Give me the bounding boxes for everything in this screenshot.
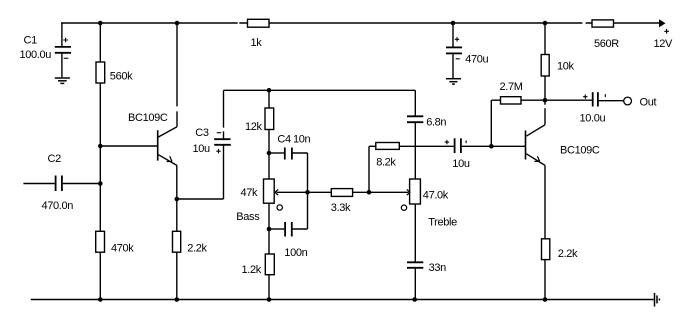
svg-text:12k: 12k	[245, 121, 263, 133]
svg-text:47k: 47k	[241, 187, 259, 199]
wire 6.8n bottom to treble pot	[414, 123, 416, 179]
svg-text:C3: C3	[195, 127, 209, 139]
node dot collector/10k junction	[543, 98, 548, 103]
wire 100n right up to wiper node	[293, 192, 308, 229]
node dot emitter junction	[175, 197, 180, 202]
svg-text:BC109C: BC109C	[128, 112, 168, 124]
transistor Q2 BC109C	[526, 125, 600, 166]
resistor R 1k	[248, 19, 270, 49]
wire 2.2k bottom	[544, 260, 546, 300]
node dot bottom 33n	[412, 297, 417, 302]
wire 2.2k Q1 bottom	[176, 252, 178, 299]
wire top rail left	[61, 22, 248, 24]
wire 10u right to Q2 base	[462, 145, 525, 147]
svg-text:3.3k: 3.3k	[331, 202, 351, 214]
wire junction up to 8.2k	[369, 146, 376, 192]
12V supply arrow	[654, 19, 674, 50]
svg-text:C4: C4	[277, 134, 291, 146]
node dot bottom 2.2k Q2	[543, 297, 548, 302]
wire to C4	[269, 152, 284, 154]
resistor R 470k	[96, 231, 135, 254]
wire 2.7M left stem	[491, 100, 500, 146]
svg-text:10u: 10u	[193, 143, 211, 155]
resistor R 3.3k	[331, 189, 353, 214]
svg-text:BC109C: BC109C	[560, 145, 600, 157]
node dot 3.3k/8.2k junction	[367, 190, 372, 195]
wire C4 right to wiper node	[293, 153, 308, 192]
svg-text:100.0u: 100.0u	[20, 49, 52, 61]
wire mid rail	[224, 89, 416, 91]
wire bottom rail	[31, 299, 654, 301]
capacitor C1 100.0u	[20, 23, 72, 77]
wire C3 bottom stem	[223, 145, 225, 199]
node dot 10k rail	[543, 21, 548, 26]
svg-text:Treble: Treble	[428, 217, 457, 229]
wire 2.7M right to collector node	[521, 99, 545, 101]
node dot 12k/C4/pot	[267, 151, 272, 156]
ground under 470u	[446, 79, 461, 84]
svg-text:12V: 12V	[654, 38, 674, 50]
svg-text:470u: 470u	[465, 54, 488, 66]
wire treble pot bottom	[414, 204, 416, 262]
ground under C1	[55, 78, 70, 83]
wire output from collector node	[545, 99, 592, 101]
wire 10k top stub	[544, 23, 546, 55]
node dot bottom 470k	[98, 297, 103, 302]
svg-text:33n: 33n	[429, 262, 447, 274]
wire 33n bottom	[414, 269, 416, 300]
wire Q1 emitter down	[176, 166, 178, 232]
svg-text:2.2k: 2.2k	[187, 242, 207, 254]
wire 1.2k bottom	[268, 275, 270, 300]
node dot 470u rail	[451, 21, 456, 26]
capacitor 100n	[284, 222, 307, 259]
svg-text:C1: C1	[24, 35, 38, 47]
node dot top rail / 560k	[98, 21, 103, 26]
svg-text:8.2k: 8.2k	[376, 157, 396, 169]
capacitor 33n	[407, 262, 446, 274]
svg-text:6.8n: 6.8n	[426, 117, 446, 129]
svg-text:10n: 10n	[293, 134, 311, 146]
svg-text:1k: 1k	[251, 37, 263, 49]
node dot 100n junction	[267, 227, 272, 232]
resistor R 12k	[245, 108, 274, 133]
svg-text:47.0k: 47.0k	[423, 190, 449, 202]
wire pot bottom	[268, 203, 270, 229]
capacitor 470u	[446, 23, 489, 78]
potentiometer VR Bass 47k	[236, 153, 307, 223]
wire input left	[23, 183, 54, 185]
node dot bottom 1.2k	[267, 297, 272, 302]
svg-text:10k: 10k	[557, 61, 575, 73]
resistor R 1.2k	[242, 254, 275, 276]
svg-text:470k: 470k	[111, 242, 134, 254]
wire 560k top stub	[99, 23, 101, 62]
node dot bass wiper	[305, 190, 310, 195]
node dot collector rail	[175, 21, 180, 26]
wire 470k bottom	[99, 252, 101, 299]
svg-text:1.2k: 1.2k	[242, 264, 262, 276]
svg-text:C2: C2	[48, 153, 62, 165]
wire top rail mid	[269, 22, 592, 24]
svg-text:100n: 100n	[284, 247, 307, 259]
resistor R 10k	[541, 55, 574, 77]
wire Q2 emitter down	[544, 165, 546, 238]
wire emitter to C3	[177, 198, 224, 200]
wire 3.3k right to junction	[353, 191, 369, 193]
svg-text:10.0u: 10.0u	[580, 113, 606, 125]
svg-text:Bass: Bass	[236, 211, 260, 223]
resistor R 8.2k	[376, 143, 400, 169]
capacitor C3 10u	[193, 127, 231, 155]
node dot C2 junction	[98, 181, 103, 186]
wire 12k top stub	[268, 90, 270, 108]
resistor R 2.7M	[500, 81, 523, 104]
capacitor 10u coupling	[445, 138, 470, 170]
capacitor 6.8n	[407, 116, 446, 128]
wire junction to treble wiper arrow	[369, 190, 410, 196]
out terminal circle	[624, 97, 657, 109]
svg-text:560R: 560R	[594, 38, 619, 50]
wire C3 top stem	[223, 90, 225, 138]
node dot mid rail 12k	[267, 88, 272, 93]
svg-text:Out: Out	[640, 97, 657, 109]
svg-text:2.2k: 2.2k	[558, 248, 578, 260]
resistor R 2.2k (Q1 emitter)	[173, 231, 208, 254]
wire 10k bottom	[544, 76, 546, 100]
transistor Q1 BC109C	[128, 112, 177, 166]
svg-text:2.7M: 2.7M	[500, 81, 523, 93]
svg-text:560k: 560k	[110, 71, 133, 83]
wire 1.2k top	[268, 229, 270, 254]
resistor R 560R	[592, 20, 619, 50]
potentiometer VR Treble 47.0k	[401, 179, 457, 229]
capacitor C4 10n	[277, 134, 310, 160]
wire wiper node to 3.3k	[308, 191, 332, 193]
capacitor 10.0u output	[580, 92, 606, 124]
node dot bottom 2.2k Q1	[175, 297, 180, 302]
wire base	[100, 145, 157, 147]
node dot base junction	[98, 144, 103, 149]
svg-text:10u: 10u	[452, 158, 470, 170]
wire Q2 collector up	[544, 100, 546, 125]
wire Q1 collector up	[176, 23, 178, 127]
node dot 2.7M base junction	[489, 144, 494, 149]
wire 12k bottom	[268, 130, 270, 154]
capacitor C2 470.0n	[42, 153, 74, 212]
resistor R 2.2k (Q2 emitter)	[542, 239, 579, 260]
resistor R 560k	[96, 62, 133, 83]
wire 10.0u to out terminal	[599, 100, 624, 102]
wire to 100n	[269, 228, 284, 230]
wire 6.8n top stem	[414, 90, 416, 116]
ground right end	[655, 293, 660, 307]
wire C2 to base node	[63, 183, 101, 185]
wire 8.2k right to 10u	[399, 145, 453, 147]
wire top rail right	[614, 22, 660, 24]
wire 560k bottom to base node and down to 470k	[99, 83, 101, 231]
svg-text:470.0n: 470.0n	[42, 200, 74, 212]
